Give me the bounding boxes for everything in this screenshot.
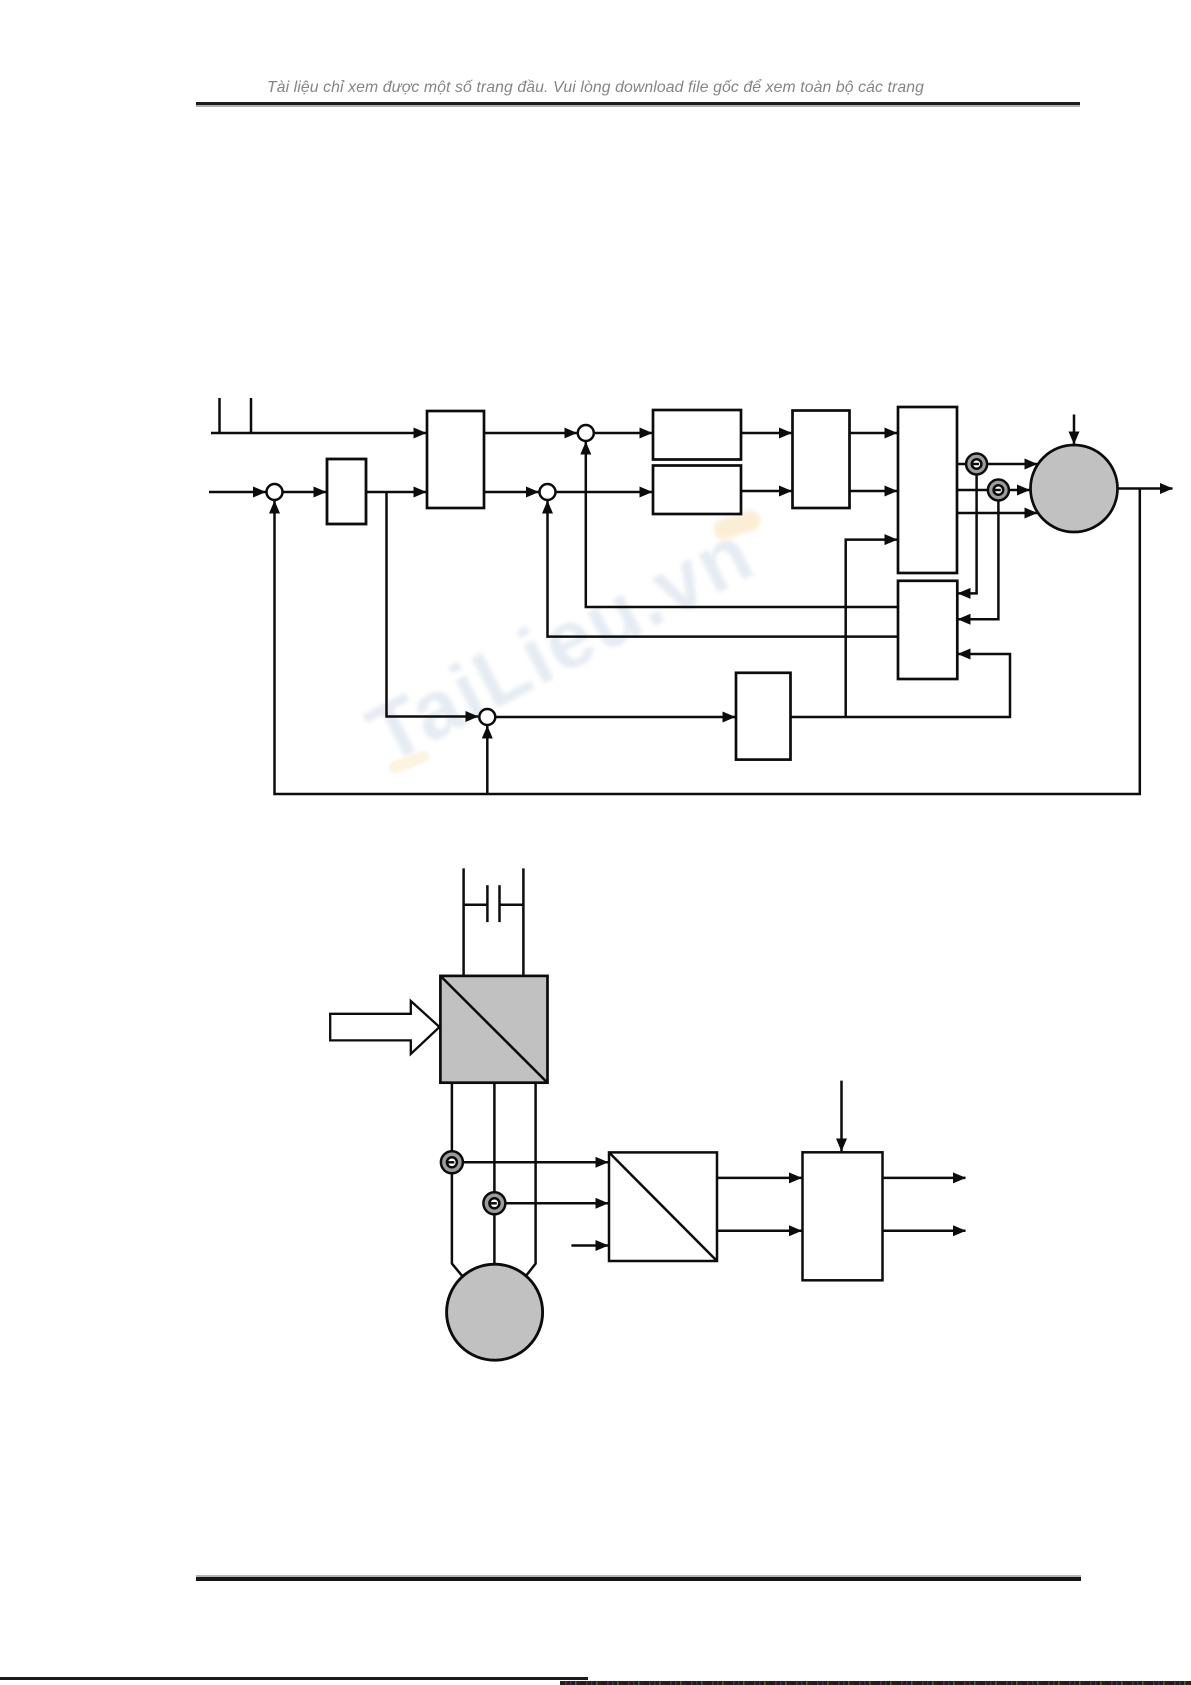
wire S1 to block B1 <box>283 491 327 494</box>
watermark orange swoosh <box>711 508 763 542</box>
block B3a <box>653 410 741 460</box>
wire branch down to S4 <box>387 492 479 717</box>
sensor T2 tick <box>994 489 1001 492</box>
sensor L2 outer <box>483 1192 505 1214</box>
block B7 <box>736 673 791 760</box>
sensor L1 tick <box>447 1161 454 1164</box>
wire S3 to block B3b <box>556 491 653 494</box>
wire B4 to B5 top <box>850 432 898 435</box>
sensor L2 tick <box>490 1202 497 1205</box>
wire I1 to B8 top <box>717 1177 802 1180</box>
block B4 <box>793 411 850 509</box>
wire sensor L1 to inverter <box>452 1161 608 1164</box>
wire S4 to block B7 <box>495 716 735 719</box>
block B1 <box>327 459 366 524</box>
wire B6 to S2 feedback <box>586 442 898 607</box>
wire sensor L2 to inverter <box>494 1202 608 1205</box>
bottom edge line <box>0 1677 588 1680</box>
watermark orange smudge <box>387 749 431 775</box>
header rule dark <box>196 102 1080 105</box>
phase wire right <box>526 1083 536 1277</box>
sensor T2 outer <box>988 480 1009 501</box>
bottom edge tiny text band <box>560 1681 1191 1685</box>
wire B3a to B4 <box>741 432 792 435</box>
motor M1 <box>1031 445 1118 532</box>
capacitor C plate left <box>486 885 489 922</box>
wire B8 output bottom <box>883 1229 966 1232</box>
wire speed input <box>209 491 266 494</box>
sensor T1 tick <box>972 463 979 466</box>
wire stub third input <box>571 1244 608 1247</box>
sensor T2 inner <box>994 485 1004 495</box>
motor M2 <box>447 1264 543 1360</box>
wire speed feedback <box>275 489 1140 795</box>
wire B3b to B4 <box>741 490 792 493</box>
wire S2 to block B3a <box>594 432 652 435</box>
dc-link wire right <box>522 868 525 976</box>
wire B6 to S3 feedback <box>548 501 899 637</box>
sensor T1 outer <box>966 454 987 475</box>
wire B5 to motor line 3 <box>957 512 1037 515</box>
rectifier block R1 <box>440 976 547 1083</box>
capacitor C plate right <box>498 885 501 922</box>
wire sensor T2 drop to B6 <box>958 490 998 619</box>
summing junction S2 <box>578 425 594 441</box>
header notice text <box>0 79 1191 97</box>
wire reference input top <box>211 432 426 435</box>
wire branch up into B5 left <box>846 540 897 717</box>
block B2 <box>427 411 484 508</box>
summing junction S1 <box>267 484 283 500</box>
wire feedback up to S4 <box>486 726 489 794</box>
wire load arrow into motor top <box>1073 415 1076 445</box>
wire I1 to B8 bottom <box>717 1229 802 1232</box>
wire B8 output top <box>883 1177 966 1180</box>
dc-link wire left <box>462 868 465 976</box>
wire B7 output loop to B6 <box>791 654 1011 717</box>
sensor T1 inner <box>972 459 982 469</box>
capacitor C lead left <box>464 903 488 906</box>
sensor L1 inner <box>447 1157 457 1167</box>
block B5 <box>898 407 957 573</box>
summing junction S3 <box>540 484 556 500</box>
block B6 <box>898 581 957 679</box>
wire B5 to motor line 2 <box>957 489 1030 492</box>
wire motor output <box>1118 487 1173 490</box>
phase wire middle <box>493 1083 496 1265</box>
wire B2 to S2 <box>484 432 577 435</box>
mains input block arrow <box>330 1001 439 1054</box>
sensor L2 inner <box>489 1198 499 1208</box>
footer rule light <box>196 1575 1081 1578</box>
reference step tick 1 <box>218 398 221 434</box>
reference step tick 2 <box>250 398 253 434</box>
block B3b <box>653 466 741 515</box>
block B8 <box>803 1152 883 1280</box>
summing junction S4 <box>479 709 495 725</box>
phase wire left <box>452 1083 464 1278</box>
rectifier R1 diagonal <box>440 976 547 1083</box>
measuring block I1 <box>609 1152 717 1261</box>
sensor L1 outer <box>441 1151 463 1173</box>
wire B5 to motor line 1 <box>957 463 1037 466</box>
wire B4 to B5 bottom <box>850 490 898 493</box>
measuring block I1 diagonal <box>609 1152 717 1261</box>
wire control input into B8 top <box>840 1081 843 1151</box>
header rule light <box>196 105 1080 107</box>
footer rule dark <box>196 1577 1081 1581</box>
watermark TaiLieu.vn <box>353 506 768 783</box>
capacitor C lead right <box>500 903 524 906</box>
wire sensor T1 drop to B6 <box>958 464 977 593</box>
wire B1 to block B2 <box>366 491 426 494</box>
wire B2 to S3 <box>484 491 539 494</box>
